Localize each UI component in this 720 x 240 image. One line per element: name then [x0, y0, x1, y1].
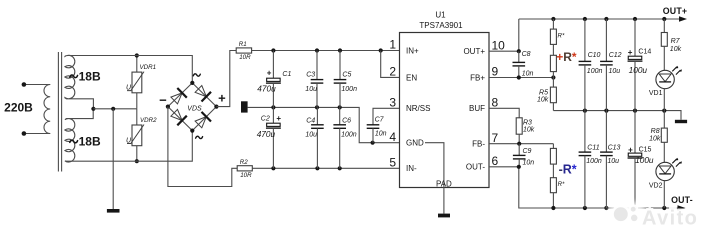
- svg-text:R1: R1: [239, 41, 247, 48]
- wire secondary top to bridge AC1: [69, 56, 193, 83]
- wire center tap rail: [93, 108, 136, 110]
- node C9 bottom junction: [517, 165, 521, 169]
- svg-text:−: −: [159, 93, 167, 108]
- svg-text:C11: C11: [587, 144, 599, 151]
- svg-text:10n: 10n: [522, 71, 534, 78]
- capacitor C6: [333, 107, 346, 168]
- node C1 top junction: [271, 48, 275, 52]
- wire bridge + to R1: [216, 51, 236, 107]
- wire pin 10 OUT+ to top rail: [489, 19, 519, 51]
- node mid rail C14-C15 junction: [633, 109, 637, 113]
- svg-text:10u: 10u: [607, 158, 619, 165]
- node top rail R chain junction: [551, 17, 555, 21]
- svg-text:TPS7A3901: TPS7A3901: [419, 21, 463, 30]
- capacitor C15: [628, 111, 643, 208]
- svg-text:C1: C1: [282, 71, 291, 78]
- svg-text:C13: C13: [608, 144, 621, 151]
- watermark Avito logo circles: [613, 206, 639, 223]
- node FB+ divider junction: [551, 75, 555, 79]
- svg-text:10u: 10u: [305, 86, 317, 93]
- watermark Avito text: [642, 208, 699, 230]
- svg-text:100n: 100n: [341, 132, 357, 139]
- svg-text:10n: 10n: [375, 130, 387, 137]
- varistor VDR1: [127, 56, 144, 109]
- resistor R7: [661, 19, 667, 70]
- wire pin 7 FB-: [489, 143, 553, 145]
- resistor R8: [661, 111, 667, 163]
- node bridge left vertex: [166, 105, 170, 109]
- svg-text:10u: 10u: [609, 68, 621, 75]
- svg-text:470u: 470u: [257, 129, 276, 139]
- svg-text:9: 9: [492, 65, 499, 79]
- svg-text:10k: 10k: [649, 136, 661, 143]
- resistor R2: [237, 166, 252, 171]
- svg-text:EN: EN: [406, 73, 417, 82]
- resistor R* top: [550, 19, 556, 55]
- svg-text:10u: 10u: [305, 132, 317, 139]
- U1 internal GND-PAD wire: [425, 143, 444, 188]
- LED VD1: [656, 66, 682, 111]
- resistor R* bottom: [550, 178, 556, 208]
- node mid rail VD1-R8 junction: [662, 109, 666, 113]
- transformer T1 secondary winding 2: [65, 109, 93, 162]
- watermark halo: [607, 201, 647, 227]
- node top rail C10 junction: [583, 17, 587, 21]
- node C4 bottom junction: [315, 166, 319, 170]
- capacitor C14: [628, 19, 643, 111]
- LED VD2: [656, 158, 682, 208]
- node EN branch junction: [379, 48, 383, 52]
- node bridge right vertex: [214, 105, 218, 109]
- label ~ top AC: [193, 74, 200, 76]
- svg-text:100n: 100n: [586, 158, 602, 165]
- capacitor C8: [513, 51, 526, 77]
- svg-text:4: 4: [389, 130, 396, 144]
- wire center tap to ground: [112, 109, 114, 209]
- capacitor C11: [579, 111, 592, 208]
- wire right mid rail: [553, 111, 681, 120]
- node bridge bottom vertex: [190, 129, 194, 133]
- svg-text:OUT+: OUT+: [663, 6, 688, 16]
- svg-text:10R: 10R: [240, 172, 252, 179]
- capacitor C10: [579, 19, 592, 111]
- svg-text:+R*: +R*: [556, 50, 577, 64]
- wire pin 9 FB+: [489, 77, 553, 79]
- node C3 top junction: [315, 48, 319, 52]
- svg-text:+: +: [218, 90, 226, 105]
- node C7 bottom junction: [371, 141, 375, 145]
- capacitor C12: [600, 19, 613, 111]
- svg-text:10R: 10R: [239, 54, 251, 61]
- VDS diode top-left: [171, 88, 187, 104]
- VDS diode top-right: [195, 86, 211, 102]
- svg-text:+: +: [267, 69, 272, 78]
- svg-text:FB-: FB-: [472, 140, 485, 149]
- svg-text:R7: R7: [671, 38, 681, 45]
- svg-text:PAD: PAD: [436, 179, 452, 188]
- capacitor C13: [600, 111, 613, 208]
- svg-text:220В: 220В: [4, 101, 33, 115]
- svg-text:C12: C12: [609, 52, 622, 59]
- node pin10 C8 junction: [517, 49, 521, 53]
- capacitor C7: [367, 125, 380, 143]
- wire primary bottom terminal lead: [22, 131, 51, 136]
- svg-text:+: +: [628, 48, 633, 57]
- svg-text:10: 10: [492, 38, 506, 52]
- transformer T1 primary winding: [44, 85, 50, 134]
- svg-text:C4: C4: [306, 118, 315, 125]
- svg-text:470u: 470u: [257, 84, 276, 94]
- diode bridge VDS frame: [168, 83, 217, 131]
- wire pin 6 OUT- to bottom rail: [489, 167, 686, 211]
- node mid rail C10-C11 junction: [583, 109, 587, 113]
- wire IN- rail: [252, 167, 399, 169]
- svg-text:GND: GND: [406, 139, 424, 148]
- svg-text:6: 6: [492, 154, 499, 168]
- capacitor C3: [311, 51, 324, 108]
- svg-text:10k: 10k: [537, 97, 549, 104]
- node bottom rail C15 junction: [633, 206, 637, 210]
- svg-text:VD2: VD2: [649, 182, 663, 189]
- svg-text:R2: R2: [240, 159, 248, 166]
- svg-text:100n: 100n: [341, 86, 357, 93]
- svg-text:10n: 10n: [523, 160, 535, 167]
- svg-text:C6: C6: [342, 118, 351, 125]
- svg-text:1: 1: [389, 38, 396, 52]
- svg-text:C14: C14: [638, 48, 651, 55]
- svg-text:U1: U1: [435, 11, 446, 20]
- svg-text:5: 5: [389, 156, 396, 170]
- node C3-C4 mid junction: [315, 105, 319, 109]
- transformer T1 secondary winding 1: [65, 55, 94, 109]
- node mid rail C12-C13 junction: [604, 109, 608, 113]
- capacitor C2: [266, 107, 281, 168]
- svg-text:100u: 100u: [635, 155, 654, 165]
- resistor +R*: [550, 55, 556, 77]
- ground right mid rail: [675, 120, 687, 123]
- svg-text:Avito: Avito: [642, 208, 698, 230]
- svg-text:10k: 10k: [523, 127, 535, 134]
- svg-text:VDR1: VDR1: [140, 64, 157, 71]
- transformer T1 core: [58, 52, 61, 172]
- svg-text:C10: C10: [588, 52, 601, 59]
- svg-text:NR/SS: NR/SS: [406, 104, 430, 113]
- ground transformer center tap: [107, 209, 120, 213]
- svg-text:+: +: [628, 146, 633, 155]
- node bottom rail C13 junction: [604, 206, 608, 210]
- resistor R3: [516, 118, 522, 144]
- VDS diode bottom-right: [195, 112, 211, 128]
- wire PAD to ground: [443, 188, 445, 214]
- op-amp regulator U1 TPS7A3901 body: [400, 33, 490, 188]
- svg-text:R8: R8: [651, 128, 660, 135]
- svg-text:VDR2: VDR2: [140, 117, 157, 124]
- svg-text:C8: C8: [522, 51, 531, 58]
- node VDR1 top junction: [135, 53, 139, 57]
- capacitor C9: [513, 144, 526, 167]
- node bridge top vertex: [190, 81, 194, 85]
- label ~ bottom AC: [196, 136, 203, 138]
- svg-text:C3: C3: [306, 71, 315, 78]
- ground U1 PAD: [438, 214, 450, 218]
- svg-text:18В: 18В: [79, 69, 101, 83]
- svg-text:R*: R*: [558, 32, 565, 39]
- svg-text:R3: R3: [523, 120, 532, 127]
- wire OUT+ top rail with arrow: [519, 16, 687, 22]
- capacitor C4: [311, 107, 324, 168]
- varistor VDR2: [127, 109, 144, 161]
- ground bus bar terminal: [241, 101, 248, 112]
- capacitor C1: [266, 51, 281, 108]
- svg-text:7: 7: [492, 131, 499, 145]
- node bottom rail VD2 junction: [662, 206, 666, 210]
- wire pin 8 BUF to R3: [489, 108, 519, 118]
- svg-text:8: 8: [492, 96, 499, 110]
- wire secondary bottom to bridge AC2: [70, 131, 192, 162]
- svg-text:C2: C2: [261, 115, 270, 122]
- node C5-C6 mid junction: [338, 105, 342, 109]
- svg-text:IN-: IN-: [406, 164, 417, 173]
- node C1-C2 mid junction: [271, 105, 275, 109]
- label ~18B secondary 1: [70, 75, 78, 78]
- svg-text:BUF: BUF: [469, 104, 485, 113]
- wire EN jog to pin 2: [381, 51, 400, 78]
- svg-text:FB+: FB+: [470, 73, 485, 82]
- svg-text:10k: 10k: [670, 46, 682, 53]
- node bottom rail C11 junction: [583, 206, 587, 210]
- node top rail R7 junction: [662, 17, 666, 21]
- svg-text:100u: 100u: [629, 65, 648, 75]
- svg-text:OUT+: OUT+: [463, 47, 485, 56]
- node top rail C12 junction: [604, 17, 608, 21]
- node C6 bottom junction: [338, 166, 342, 170]
- node bottom rail -R* chain junction: [551, 206, 555, 210]
- svg-text:OUT-: OUT-: [671, 195, 693, 205]
- svg-text:+: +: [276, 114, 281, 123]
- svg-text:18В: 18В: [79, 135, 101, 149]
- resistor R5: [550, 78, 556, 111]
- label ~18B secondary 2: [70, 140, 78, 143]
- resistor -R*: [550, 144, 556, 178]
- svg-text:100n: 100n: [587, 68, 603, 75]
- svg-text:IN+: IN+: [406, 46, 419, 55]
- wire GND mid rail to pin 4: [248, 107, 400, 142]
- svg-text:2: 2: [389, 65, 396, 79]
- VDS diode bottom-left: [171, 109, 187, 125]
- svg-text:-R*: -R*: [559, 163, 577, 177]
- node center tap ground branch: [111, 107, 115, 111]
- svg-text:C15: C15: [639, 146, 652, 153]
- svg-text:OUT-: OUT-: [466, 163, 485, 172]
- svg-text:3: 3: [389, 96, 396, 110]
- node top rail C14 junction: [633, 17, 637, 21]
- node C8 bottom junction: [517, 75, 521, 79]
- node center tap junction: [91, 107, 95, 111]
- svg-text:R*: R*: [558, 181, 565, 188]
- svg-text:VDS: VDS: [187, 105, 202, 112]
- wire pin 3 NR/SS to C7: [373, 108, 400, 125]
- node C5 top junction: [338, 48, 342, 52]
- wire bridge - to R2: [168, 107, 237, 187]
- svg-text:C9: C9: [523, 148, 532, 155]
- svg-text:VD1: VD1: [649, 90, 663, 97]
- wire IN+ rail: [252, 50, 400, 52]
- svg-text:C7: C7: [375, 117, 385, 124]
- wire primary top terminal lead: [22, 82, 51, 87]
- svg-text:C5: C5: [342, 71, 351, 78]
- node VDR2 bottom junction: [135, 159, 139, 163]
- node C2 bottom junction: [271, 166, 275, 170]
- capacitor C5: [334, 51, 347, 108]
- node R3 C9 junction: [517, 142, 521, 146]
- resistor R1: [236, 48, 251, 53]
